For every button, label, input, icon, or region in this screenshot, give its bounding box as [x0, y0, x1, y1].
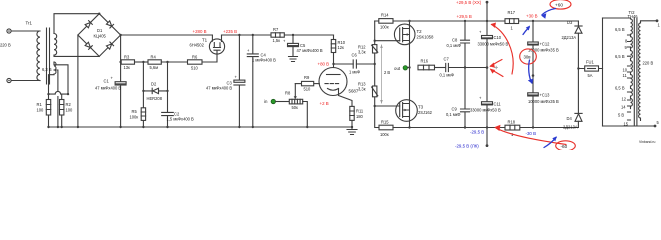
label +30 B [526, 14, 538, 19]
capacitor C1 [95, 62, 126, 127]
resistor R16 [418, 59, 445, 70]
svg-text:R6: R6 [192, 55, 198, 60]
svg-text:+60: +60 [555, 3, 563, 8]
svg-text:10000 мкФх35 В: 10000 мкФх35 В [528, 99, 559, 104]
svg-text:FU1: FU1 [586, 60, 594, 65]
Tr1 core [47, 28, 50, 84]
svg-text:C8: C8 [452, 38, 458, 43]
junction T2 gate [374, 40, 376, 42]
junction out [408, 66, 410, 68]
annotation red arrow bottom [494, 125, 566, 145]
annotation blue arrow C12 junction [528, 60, 533, 84]
transistor T2 [375, 21, 434, 45]
ground C5 [289, 57, 298, 62]
wire cathode [339, 89, 353, 107]
wire heater bottom [49, 74, 55, 94]
svg-text:220 В: 220 В [0, 43, 11, 48]
bridge rectifier D1 frame [78, 14, 121, 57]
svg-text:+29,5 В: +29,5 В [457, 14, 472, 19]
svg-text:2SK1058: 2SK1058 [417, 35, 435, 40]
svg-text:D4: D4 [567, 116, 573, 121]
capacitor C9 [446, 68, 470, 128]
node out [394, 66, 410, 71]
svg-text:C10: C10 [494, 35, 502, 40]
wire gate node drop [167, 62, 169, 112]
svg-text:R11: R11 [356, 109, 364, 114]
wire regulated rail [222, 34, 334, 36]
annotation blue arrow top right [541, 9, 555, 19]
resistor R18 [505, 120, 520, 138]
svg-text:30в: 30в [524, 55, 532, 60]
junction T2 drain rail [408, 20, 410, 22]
svg-text:0,1 мкФ: 0,1 мкФ [446, 112, 461, 117]
svg-text:47 мкФх400 В: 47 мкФх400 В [297, 48, 323, 53]
bridge diode upper-right [106, 21, 113, 28]
svg-text:R14: R14 [381, 13, 389, 18]
svg-text:-29,5 В: -29,5 В [470, 130, 484, 135]
wire HV bottom to bridge [54, 55, 99, 56]
resistor R13 variable [358, 64, 378, 106]
label 220 B primary [643, 61, 654, 66]
label +235 B [223, 29, 237, 34]
svg-text:R16: R16 [421, 59, 429, 64]
annotation red circle -60 [556, 141, 576, 151]
wire raw drop to divider [120, 35, 122, 62]
transformer Tr2 labels [628, 10, 639, 19]
junction bus C3 [238, 126, 240, 128]
label 220 B [0, 43, 11, 48]
label +29,5 B [457, 14, 472, 19]
bridge diode upper-left [85, 21, 92, 28]
label +2 B [320, 101, 329, 106]
svg-text:3,3к: 3,3к [358, 87, 366, 92]
annotation red arrow to common upper [489, 60, 502, 68]
capacitor C2 [162, 112, 194, 128]
transistor T1 [190, 35, 225, 54]
junction bridge plus [119, 34, 121, 36]
svg-text:33000 мкФх50 В: 33000 мкФх50 В [478, 42, 509, 47]
measure arrow 2V [380, 45, 390, 104]
watermark [639, 140, 655, 144]
annotation red circle +60 [550, 0, 571, 9]
Tr1 primary winding [37, 31, 40, 81]
svg-text:10: 10 [623, 68, 628, 73]
bridge diode lower-right [106, 42, 113, 49]
svg-text:R17: R17 [508, 10, 516, 15]
terminal 1 [656, 19, 661, 27]
svg-text:0,1 мкФ: 0,1 мкФ [447, 43, 462, 48]
svg-text:6,3 В: 6,3 В [42, 67, 52, 72]
Tr2 left wire [602, 18, 604, 126]
junction C12-C13 [532, 74, 535, 77]
label +29,5 B (XX) [456, 0, 482, 5]
junction zobel common [464, 66, 466, 68]
potentiometer R8 [285, 84, 303, 110]
terminal 5 [654, 120, 660, 127]
annotation blue arrow R17 [523, 26, 530, 35]
wire R4 to gate node [161, 61, 187, 63]
svg-text:100: 100 [37, 108, 45, 113]
svg-text:-30 В: -30 В [526, 131, 537, 136]
svg-text:C1: C1 [104, 79, 110, 84]
svg-text:Vinband.ru: Vinband.ru [639, 140, 655, 144]
terminal no-load minus [486, 144, 489, 147]
svg-text:+C12: +C12 [540, 42, 551, 47]
ground bus [49, 126, 353, 128]
junction C10 rail [486, 20, 488, 22]
svg-text:R9: R9 [304, 75, 310, 80]
svg-text:50к: 50к [292, 105, 299, 110]
Tr2 tap stubs [628, 35, 631, 120]
svg-text:2Д213А: 2Д213А [563, 125, 578, 130]
terminal 220V top [7, 29, 11, 33]
junction divider left [119, 61, 121, 63]
junction T3 gate [374, 105, 376, 107]
junction C12 rail [532, 20, 534, 22]
capacitor C13 [528, 76, 559, 128]
resistor R1 [37, 94, 51, 127]
svg-text:100к: 100к [380, 132, 389, 137]
junction heater left [47, 93, 49, 95]
transformer Tr1 label [26, 21, 33, 26]
svg-text:+2 В: +2 В [320, 101, 329, 106]
wire primary bottom [11, 80, 38, 82]
ground cathode [347, 127, 357, 135]
svg-text:T3: T3 [418, 105, 424, 110]
resistor R9 [302, 75, 314, 92]
svg-text:R1: R1 [37, 102, 43, 107]
svg-text:D2: D2 [151, 82, 157, 87]
svg-text:D1: D1 [97, 28, 103, 33]
wire plate to C6 [334, 63, 354, 65]
svg-text:R15: R15 [381, 120, 389, 125]
wire terminal 1 [641, 21, 658, 22]
svg-text:220 В: 220 В [643, 61, 654, 66]
svg-text:HER208: HER208 [147, 96, 163, 101]
junction bus R5 [142, 126, 144, 128]
terminal 220V bottom [7, 78, 11, 82]
junction bus minus [77, 126, 79, 128]
triode 5687 [319, 64, 359, 96]
svg-text:R3: R3 [124, 55, 130, 60]
bridge diode lower-left [85, 42, 92, 49]
annotation red arrow to common lower [490, 69, 503, 77]
wire bias chain top [374, 21, 376, 41]
wire R3-R4 [135, 61, 149, 63]
junction C6 bias [374, 63, 376, 65]
svg-text:2Д213А: 2Д213А [562, 35, 577, 40]
wire rail to D3 [577, 21, 579, 26]
wire T2 source to out [409, 43, 411, 68]
svg-text:+C13: +C13 [540, 93, 551, 98]
svg-text:R8: R8 [285, 91, 291, 96]
svg-text:1 мкФх400 В: 1 мкФх400 В [252, 58, 276, 63]
junction C5 rail [292, 34, 294, 36]
svg-text:0,1 мкФ: 0,1 мкФ [440, 73, 455, 78]
svg-text:2 В: 2 В [384, 70, 390, 75]
junction main caps common [486, 66, 489, 69]
capacitor C7 [440, 57, 466, 78]
svg-text:+29,5 В (ХХ): +29,5 В (ХХ) [456, 0, 482, 5]
svg-text:Tr1: Tr1 [26, 21, 33, 26]
Tr2 secondary winding [631, 18, 633, 109]
Tr1 heater winding 6.3V [54, 62, 56, 74]
capacitor C8 [447, 21, 470, 68]
junction plate node [332, 63, 334, 65]
svg-text:T2: T2 [417, 29, 423, 34]
fuse FU1 [578, 60, 602, 79]
junction T3 drain rail [408, 126, 410, 128]
junction bridge top [98, 13, 100, 15]
capacitor C5 [283, 35, 323, 57]
Tr2 primary winding [639, 22, 641, 121]
resistor R12 variable [358, 41, 378, 64]
probe plus mark [495, 66, 498, 69]
svg-text:100к: 100к [130, 115, 139, 120]
svg-text:D3: D3 [567, 20, 573, 25]
resistor R6 [188, 55, 203, 71]
junction gate node [166, 61, 168, 63]
wire bridge minus down [77, 35, 79, 127]
stub no-load minus [486, 128, 488, 146]
diode D2 [143, 82, 167, 102]
transistor T3 [375, 100, 433, 128]
svg-text:3,3к: 3,3к [358, 50, 366, 55]
svg-text:47 мкФх400 В: 47 мкФх400 В [206, 86, 232, 91]
svg-text:6Н4502: 6Н4502 [190, 43, 205, 48]
junction D2 right [166, 90, 168, 92]
svg-text:C9: C9 [452, 107, 458, 112]
Tr2 tap labels [615, 27, 629, 127]
svg-text:+280 В: +280 В [193, 29, 207, 34]
svg-text:13к: 13к [124, 65, 131, 70]
junction bus C1 [119, 126, 121, 128]
junction C9 rail [464, 126, 466, 128]
junction D2 left [142, 90, 144, 92]
label +80 B [318, 62, 330, 67]
label +280 B [193, 29, 207, 34]
label 6,3 B [42, 67, 52, 72]
svg-text:100: 100 [66, 108, 74, 113]
label D1 [94, 28, 107, 39]
junction C11 rail [486, 126, 488, 128]
wire heater centre tap [54, 70, 58, 127]
capacitor C4 [247, 35, 276, 127]
resistor R17 [505, 10, 519, 31]
Tr1 HV secondary winding [54, 34, 57, 56]
junction R3-R4 [142, 61, 144, 63]
resistor R5 [130, 91, 146, 127]
wire grid [314, 83, 320, 85]
junction bus C4 [252, 126, 254, 128]
junction C13 rail [532, 126, 534, 128]
wire raw plus rail [121, 34, 213, 36]
Tr2 top tap wire [603, 17, 631, 19]
svg-text:180: 180 [356, 114, 364, 119]
svg-text:КЦ405: КЦ405 [94, 34, 107, 39]
wire primary top [11, 30, 38, 32]
svg-text:33000 мкФх50 В: 33000 мкФх50 В [470, 108, 501, 113]
svg-text:+30 В: +30 В [526, 14, 538, 19]
svg-text:1,5 мкФх400 В: 1,5 мкФх400 В [167, 117, 195, 122]
junction rectifier node [577, 67, 579, 69]
wire bias chain bottom [375, 106, 379, 128]
junction C8 rail [464, 20, 466, 22]
svg-text:6,5 В: 6,5 В [615, 86, 625, 91]
svg-text:510: 510 [304, 87, 312, 92]
svg-text:510: 510 [191, 66, 199, 71]
resistor R4 [148, 55, 161, 71]
positive low rail [410, 20, 579, 22]
svg-text:1 мкФ: 1 мкФ [349, 70, 360, 75]
junction bus tap [57, 126, 59, 128]
capacitor C3 [206, 35, 245, 127]
resistor R7 [271, 27, 284, 43]
svg-text:in: in [264, 99, 268, 104]
label -30 B [526, 131, 537, 136]
resistor R3 [121, 55, 134, 71]
resistor R10 [331, 35, 345, 64]
svg-text:11: 11 [623, 73, 628, 78]
label -29,5 B [470, 130, 484, 135]
annotation blue arrow bottom [544, 136, 557, 147]
wire out to T3 [409, 68, 411, 101]
svg-text:C6: C6 [352, 53, 358, 58]
svg-text:6,5 В: 6,5 В [615, 54, 625, 59]
capacitor C11 [470, 68, 501, 128]
capacitor C12 [528, 21, 559, 76]
junction bus C2 [166, 126, 168, 128]
svg-text:R5: R5 [132, 109, 138, 114]
capacitor C6 [349, 53, 360, 75]
wire C6 to bias chain [356, 63, 374, 65]
svg-text:5,6м: 5,6м [150, 65, 159, 70]
resistor R2 [60, 94, 74, 127]
svg-text:6,5 В: 6,5 В [615, 27, 625, 32]
wire divider drop [142, 62, 144, 91]
wire T1 gate [202, 54, 217, 62]
annotation red arrow top [491, 23, 514, 75]
svg-text:5А: 5А [588, 73, 593, 78]
wire heater top [54, 62, 68, 94]
wire in to R8 [276, 101, 290, 103]
wire common line [465, 67, 487, 69]
svg-text:15: 15 [624, 122, 629, 127]
svg-text:2SJ162: 2SJ162 [418, 110, 433, 115]
junction C3 rail [238, 34, 240, 36]
junction C4 rail [252, 34, 254, 36]
capacitor C10 [478, 21, 509, 68]
svg-text:out: out [394, 66, 401, 71]
svg-text:R4: R4 [151, 55, 157, 60]
Tr2 core [634, 18, 637, 126]
wire HV top to bridge [54, 14, 99, 34]
svg-text:14: 14 [621, 105, 626, 110]
diode D3 [562, 20, 583, 69]
Tr2 bottom wire [603, 125, 656, 127]
junction cathode ground [351, 126, 353, 128]
resistor R14 [375, 13, 410, 30]
svg-text:C11: C11 [494, 102, 502, 107]
wire hum-balance bar with hop [49, 91, 69, 94]
stub no-load plus [486, 2, 488, 21]
svg-text:R2: R2 [66, 102, 72, 107]
node in [264, 99, 275, 104]
svg-text:R18: R18 [508, 120, 516, 125]
svg-text:12: 12 [622, 97, 627, 102]
svg-text:C7: C7 [444, 57, 450, 62]
wire R8 to ground drop [303, 102, 308, 128]
junction heater right [67, 93, 69, 95]
svg-text:100к: 100к [380, 25, 389, 30]
svg-text:R7: R7 [273, 27, 279, 32]
wire wiper to R9 [295, 83, 301, 85]
svg-text:+235 В: +235 В [223, 29, 237, 34]
svg-text:+80 В: +80 В [318, 62, 330, 67]
svg-text:47 мкФх400 В: 47 мкФх400 В [95, 86, 121, 91]
junction bus R1 [47, 126, 49, 128]
junction bus R8 [306, 126, 308, 128]
label -29,5 B (LK) [455, 144, 479, 149]
junction bus R2 [61, 126, 63, 128]
svg-text:1,5к: 1,5к [273, 38, 281, 43]
terminal no-load plus [486, 1, 489, 4]
negative low rail [393, 127, 578, 129]
resistor R11 [350, 106, 364, 127]
resistor R15 [379, 120, 393, 138]
svg-text:5 В: 5 В [618, 113, 624, 118]
svg-text:12к: 12к [338, 45, 345, 50]
annotation red circle 30v [520, 49, 537, 64]
diode D4 [563, 69, 582, 130]
svg-text:-29,5 В (ЛК): -29,5 В (ЛК) [455, 144, 479, 149]
